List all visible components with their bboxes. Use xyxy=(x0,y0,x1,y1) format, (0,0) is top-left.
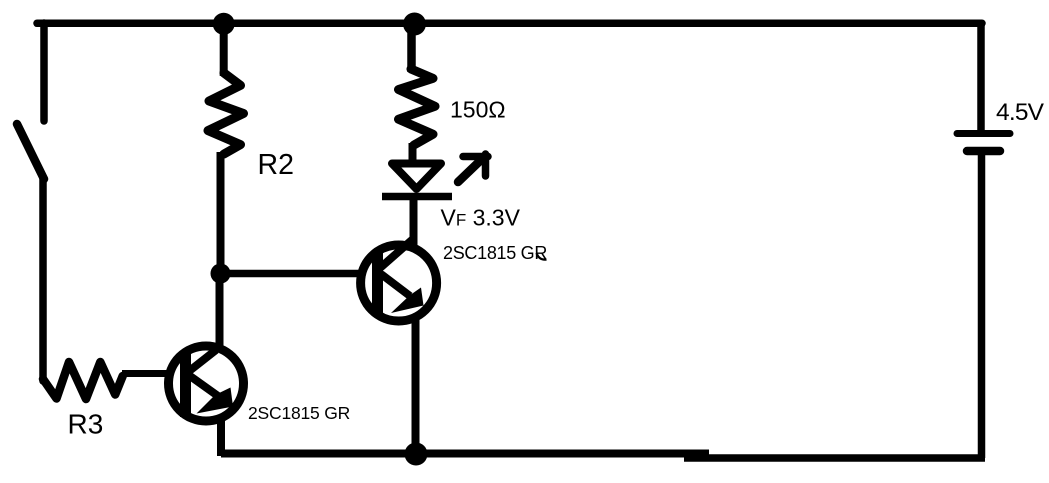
svg-text:R2: R2 xyxy=(258,149,294,181)
wire Q2 emitter down to bottom rail xyxy=(217,416,225,456)
LED light arrow xyxy=(458,154,488,182)
wire bottom rail left segment xyxy=(221,450,709,458)
wire right vertical upper (battery +) xyxy=(977,23,985,131)
node junction dot bottom xyxy=(405,443,428,466)
svg-text:4.5V: 4.5V xyxy=(996,99,1045,126)
resistor R2 xyxy=(208,73,244,154)
switch S1 blade xyxy=(17,124,44,179)
wire LED cathode to Q1 collector xyxy=(410,196,418,250)
node junction dot top-mid xyxy=(403,13,426,36)
stray pen tail after GR xyxy=(537,253,547,260)
wire 150ohm to LED anode xyxy=(409,143,417,164)
svg-text:R3: R3 xyxy=(68,409,104,440)
wire right vertical lower (battery -) xyxy=(978,155,986,458)
wire top rail to 150ohm resistor xyxy=(407,24,416,72)
wire left vertical upper (to switch) xyxy=(40,23,48,121)
wire R3 to Q2 base xyxy=(122,370,172,377)
LED D1 cathode bar xyxy=(382,193,452,201)
wire Q2 collector up to node A xyxy=(216,272,224,350)
transistor Q1 2SC1815 xyxy=(361,239,437,321)
wire Q1 emitter down to bottom rail xyxy=(412,315,420,455)
wire left vertical lower (switch to R3) xyxy=(39,177,47,381)
node junction dot top-left xyxy=(213,13,235,35)
transistor Q2 2SC1815 xyxy=(169,346,244,421)
wire R2 to node A xyxy=(217,152,225,273)
svg-text:2SC1815 GR: 2SC1815 GR xyxy=(443,243,547,263)
wire bottom rail right segment xyxy=(684,454,985,462)
svg-text:2SC1815 GR: 2SC1815 GR xyxy=(248,403,350,423)
battery BT1 plate short xyxy=(967,147,1000,156)
wire top rail xyxy=(37,20,982,28)
battery BT1 plate long xyxy=(957,130,1010,137)
svg-text:VF 3.3V: VF 3.3V xyxy=(441,205,521,231)
wire top rail to R2 xyxy=(220,23,228,76)
LED D1 triangle xyxy=(392,164,441,190)
resistor 150ohm xyxy=(399,69,436,145)
node A junction dot xyxy=(211,264,231,284)
resistor R3 xyxy=(43,362,123,399)
svg-text:150Ω: 150Ω xyxy=(450,97,506,123)
wire node A to Q1 base xyxy=(217,270,364,278)
